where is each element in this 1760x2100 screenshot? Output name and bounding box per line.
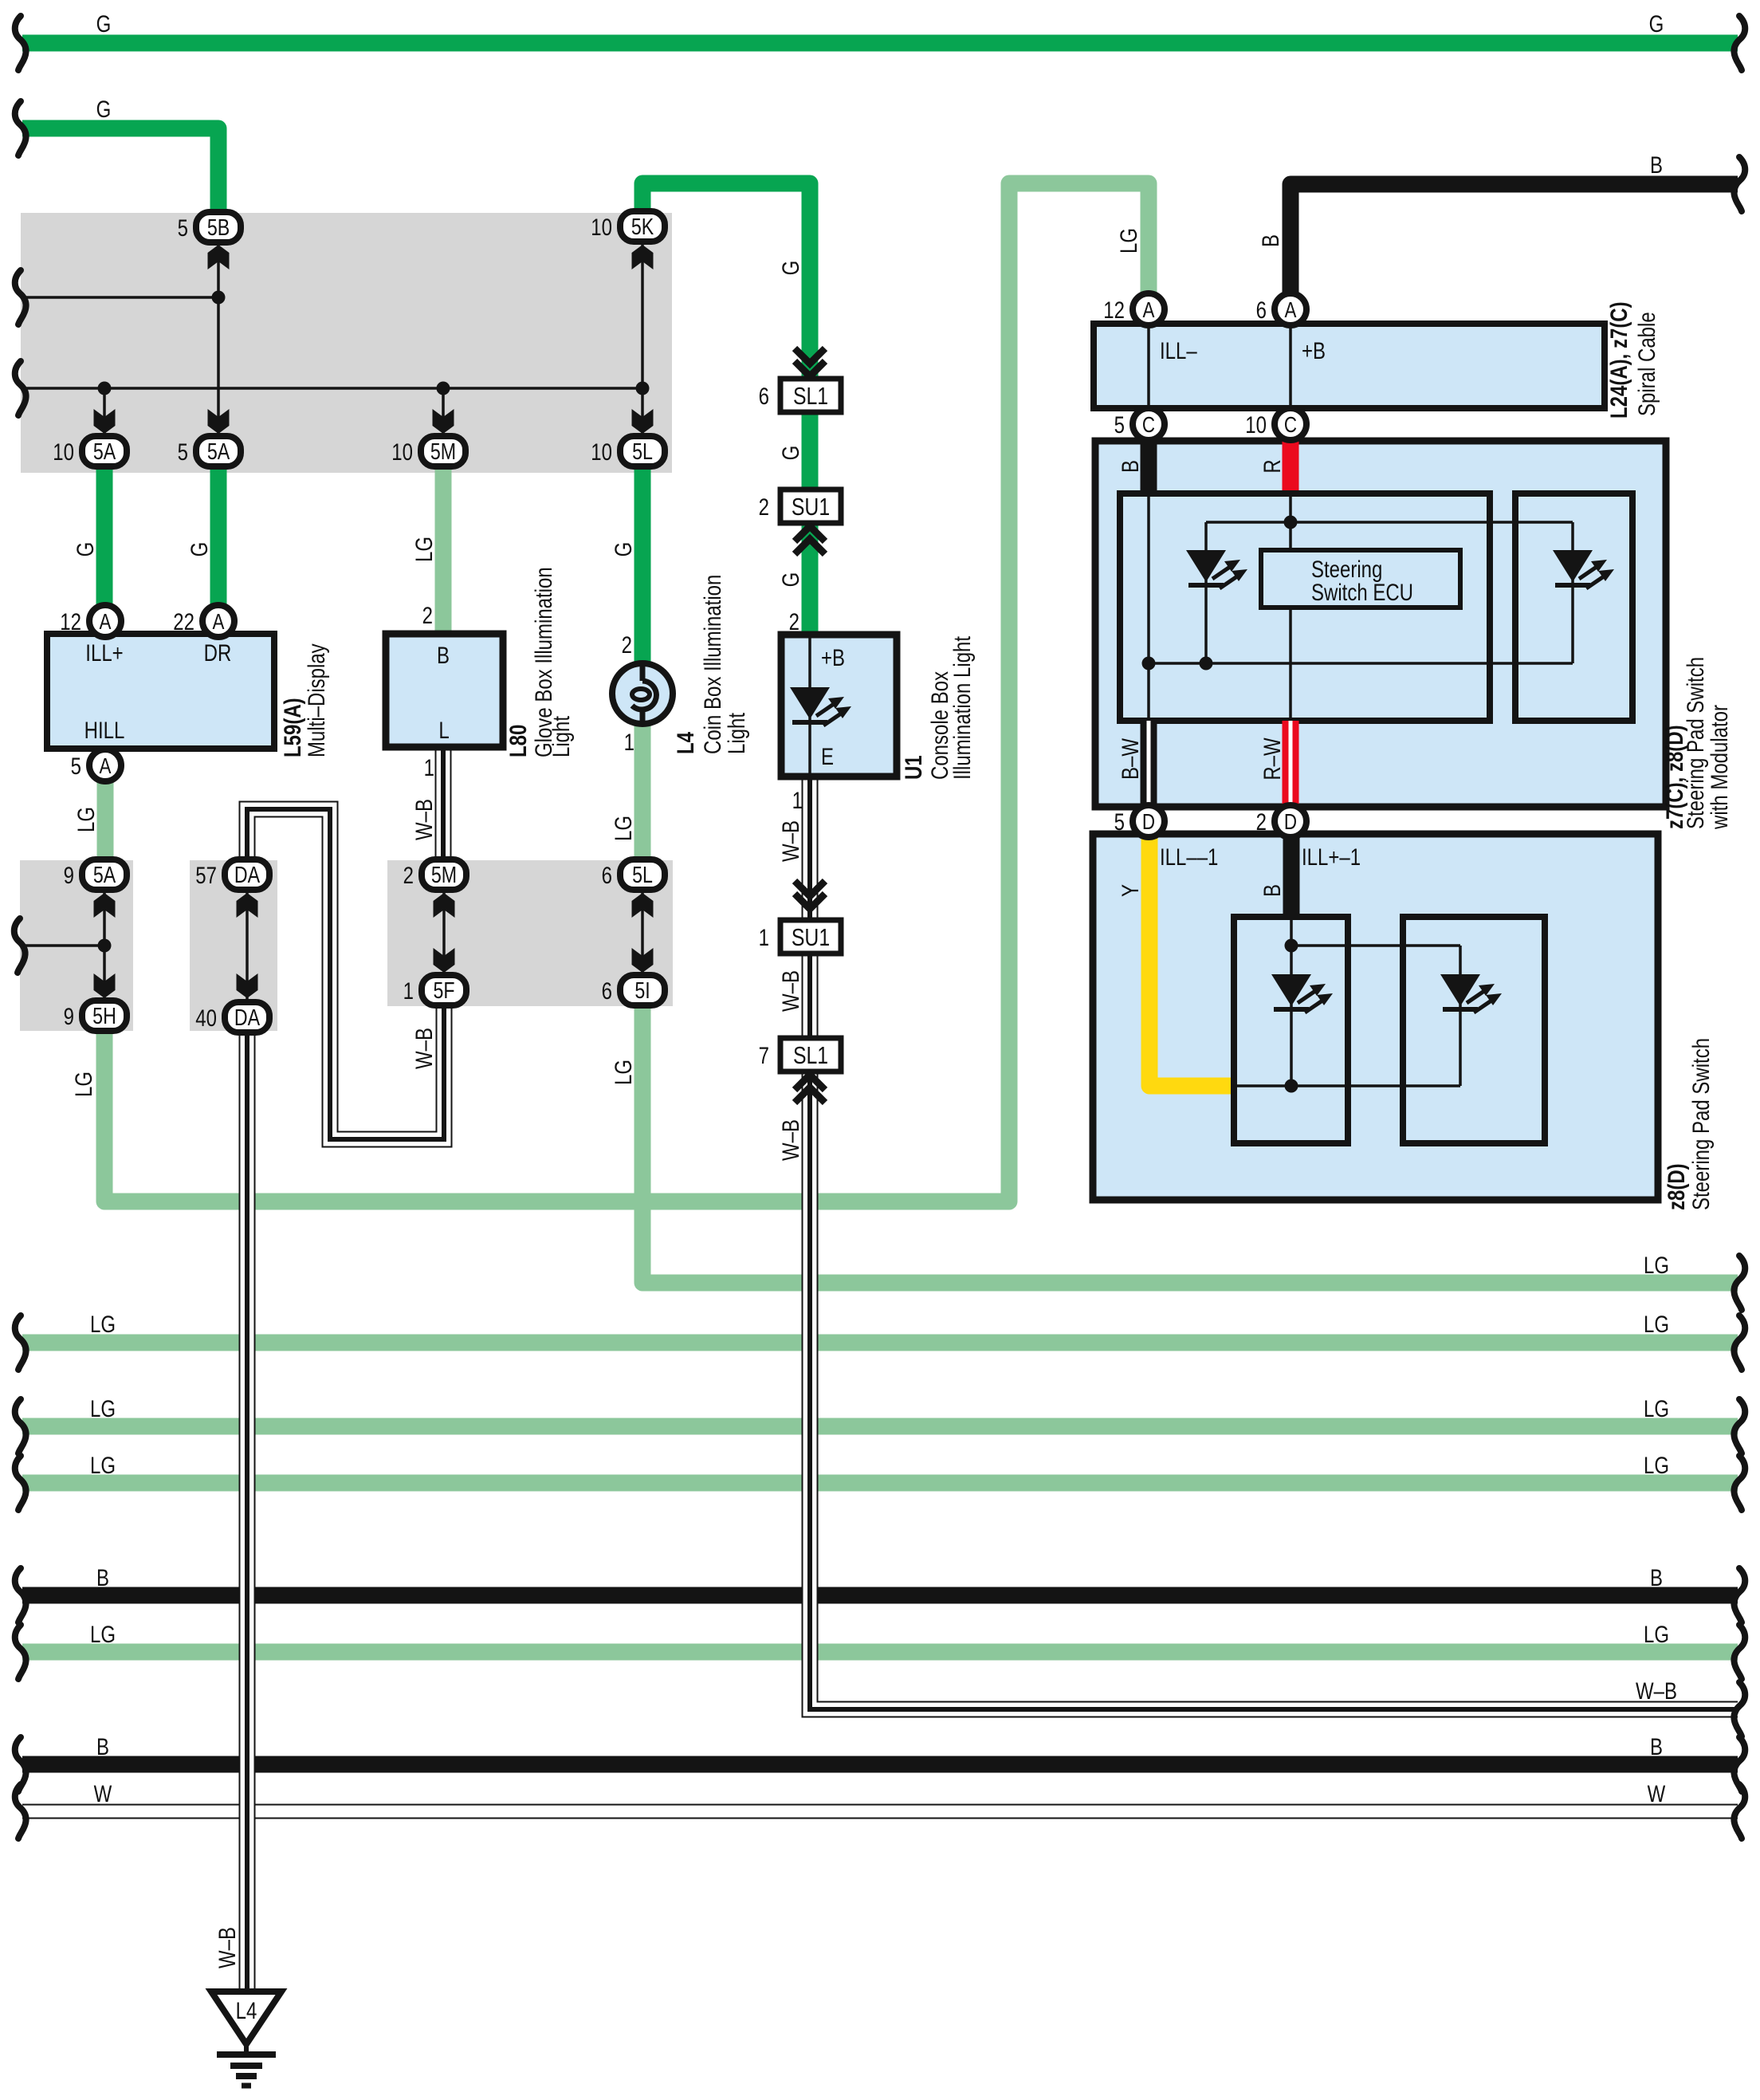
wire z8 top rail [1291, 944, 1460, 947]
svg-text:DR: DR [204, 639, 232, 666]
break LG bus2 right [1734, 1315, 1745, 1370]
svg-text:G: G [776, 572, 803, 588]
inner switch box right (z8) [1403, 917, 1545, 1143]
node 5A/5H junction [98, 939, 112, 953]
svg-text:HILL: HILL [84, 716, 125, 743]
arrow into DA57 [237, 893, 258, 918]
steering switch ECU box [1261, 550, 1460, 608]
svg-text:5: 5 [178, 438, 188, 465]
svg-text:5M: 5M [430, 438, 456, 464]
svg-text:A: A [100, 754, 112, 779]
svg-text:with Modulator: with Modulator [1705, 705, 1732, 830]
break B bus1 right [1734, 1568, 1745, 1622]
wire LG bus 2 [22, 1335, 1738, 1351]
svg-text:5A: 5A [93, 438, 116, 464]
svg-text:A: A [100, 610, 112, 635]
svg-text:+B: +B [1302, 336, 1326, 364]
svg-text:5A: 5A [207, 438, 230, 464]
svg-text:G: G [96, 10, 112, 37]
svg-text:2: 2 [1256, 808, 1267, 835]
node lower rail 5L [636, 382, 650, 395]
wire 5M/5F column [442, 891, 446, 974]
wire G 5A to multi-display pin 12 [96, 469, 113, 604]
arrow into 5L [632, 409, 654, 434]
svg-text:10: 10 [53, 438, 74, 465]
svg-text:R: R [1258, 459, 1285, 473]
svg-text:B: B [1650, 151, 1663, 178]
svg-text:6: 6 [602, 861, 612, 888]
junction block 5 (grey box) [21, 213, 672, 473]
wire z7 bottom rail [1149, 662, 1573, 665]
svg-text:SL1: SL1 [793, 1041, 828, 1068]
break B spiral right [1734, 157, 1745, 211]
wire 5B branch rail [24, 296, 218, 299]
svg-text:Light: Light [547, 716, 574, 757]
break rail2 left [15, 361, 26, 415]
svg-text:1: 1 [792, 786, 803, 813]
coin box illumination light L4 bulb [612, 663, 673, 724]
svg-text:1: 1 [424, 753, 434, 781]
wire z8 led3 branch [1290, 917, 1293, 1086]
svg-text:40: 40 [195, 1004, 217, 1031]
wire W-B 5F to DA 57 [247, 809, 444, 1139]
node z7 bottom rail junction led1 [1200, 657, 1213, 671]
connector 5B [196, 212, 241, 242]
svg-text:W–B: W–B [776, 1119, 803, 1161]
splice chevron above SL1(6) [795, 348, 825, 376]
svg-text:6: 6 [759, 382, 769, 409]
wire B bus 2 [22, 1756, 1738, 1773]
node lower rail 5M [437, 382, 450, 395]
junction block grey box 5A/5H [20, 860, 133, 1031]
splice chevron above SU1(1) [795, 881, 825, 909]
svg-text:5M: 5M [431, 861, 457, 887]
arrow into 5A(5) [208, 409, 230, 434]
LED z8 right [1440, 974, 1502, 1013]
break G bus right [1734, 16, 1745, 70]
multi-display L59(A) box [47, 634, 274, 749]
svg-text:5I: 5I [634, 977, 650, 1003]
break G feed left [15, 101, 26, 155]
svg-text:5K: 5K [631, 213, 654, 239]
connector 5A pin5 [196, 436, 241, 466]
break LG bus1 right [1734, 1256, 1745, 1310]
svg-text:W–B: W–B [776, 970, 803, 1012]
svg-text:B: B [1650, 1563, 1663, 1591]
svg-text:A: A [1143, 298, 1155, 323]
wire R-W z7 to D2 [1283, 721, 1299, 807]
connector A pin22 multi-display [202, 605, 234, 637]
svg-text:LG: LG [1644, 1310, 1669, 1337]
wire W-B U1 to splices to right bus [810, 777, 1738, 1709]
break LG bus2 left [15, 1315, 26, 1370]
splice chevron below SL1(7) [795, 1075, 825, 1103]
connector 5M pin10 [421, 436, 466, 466]
node lower rail 5A [98, 382, 112, 395]
svg-text:C: C [1142, 413, 1155, 438]
svg-text:W–B: W–B [1636, 1677, 1677, 1704]
wire LG bus 3 [22, 1418, 1738, 1435]
wire z7 top rail [1206, 521, 1573, 524]
svg-text:G: G [609, 542, 636, 557]
svg-text:L4: L4 [671, 732, 698, 754]
wire B bus to spiral cable +B [1291, 184, 1738, 293]
LED U1 [790, 687, 851, 726]
wire 5M column [442, 388, 445, 435]
arrow into 5I [632, 948, 654, 973]
wire W-B DA 40 to ground L4 [239, 1031, 256, 1990]
svg-text:Switch ECU: Switch ECU [1311, 578, 1413, 605]
connector 5K [620, 211, 665, 242]
wire LG bus 4 [22, 1475, 1738, 1492]
svg-text:U1: U1 [899, 755, 926, 780]
wire G bus top [22, 35, 1738, 52]
break LG bus4 left [15, 1456, 26, 1510]
wire 5A/5H column [103, 891, 106, 1000]
node z7 top rail junction [1284, 516, 1298, 529]
svg-text:B: B [1256, 234, 1283, 247]
arrow into 5L(6) [632, 893, 654, 918]
glove box illumination light L80 box [386, 634, 503, 747]
svg-text:LG: LG [69, 1072, 96, 1097]
steering pad switch z8 box [1093, 834, 1658, 1200]
svg-text:ILL+: ILL+ [85, 639, 123, 666]
svg-text:10: 10 [1245, 411, 1267, 438]
wire z8 bottom rail [1234, 1084, 1460, 1087]
arrow into DA40 [237, 973, 258, 998]
svg-text:B: B [96, 1732, 109, 1760]
connector A pin12 multi-display [89, 605, 121, 637]
svg-text:LG: LG [609, 1060, 636, 1085]
svg-text:5: 5 [1114, 411, 1125, 438]
junction block grey box DA [190, 860, 277, 1031]
break W-B bus right [1734, 1682, 1745, 1736]
svg-text:B: B [1258, 884, 1285, 897]
arrow into 5F [434, 948, 455, 973]
node 5B branch junction [212, 291, 226, 305]
wire G feed to 5B [22, 128, 218, 210]
wire 5K column [641, 243, 644, 435]
connector A pin6 spiral cable [1275, 293, 1306, 325]
wire z8 led4 branch [1459, 946, 1462, 1086]
svg-text:LG: LG [72, 807, 99, 832]
splice SL1 pin7 [780, 1038, 841, 1072]
svg-text:5B: 5B [207, 214, 230, 240]
ground L4 [211, 1992, 281, 2086]
wire inside U1 [808, 638, 811, 773]
svg-text:LG: LG [410, 537, 437, 562]
svg-text:E: E [821, 742, 834, 769]
svg-text:G: G [1649, 10, 1664, 37]
svg-text:57: 57 [195, 861, 217, 888]
connector DA pin57 [225, 859, 269, 890]
svg-text:A: A [1285, 298, 1297, 323]
break 5A/5H rail left [14, 918, 26, 973]
svg-text:LG: LG [90, 1620, 116, 1647]
svg-text:G: G [776, 261, 803, 276]
svg-text:G: G [96, 95, 112, 122]
connector 5F pin1 [422, 975, 466, 1005]
wire B D2 inside z8 [1283, 836, 1300, 918]
svg-text:6: 6 [1256, 296, 1267, 323]
svg-text:6: 6 [602, 977, 612, 1004]
wire DA column [246, 893, 249, 1000]
svg-text:Multi–Display: Multi–Display [302, 643, 329, 757]
svg-text:2: 2 [422, 601, 433, 628]
connector A pin5 multi-display [89, 749, 121, 781]
wire z7 led1 branch [1204, 522, 1208, 663]
connector DA pin40 [225, 1002, 269, 1032]
svg-text:D: D [1142, 810, 1155, 835]
splice chevron below SU1(2) [795, 526, 825, 554]
wire B C5 into z7 [1141, 440, 1157, 494]
connector 5L pin6 [620, 859, 665, 890]
node z7 bottom rail junction B [1142, 657, 1156, 671]
svg-text:+B: +B [821, 643, 845, 671]
svg-text:LG: LG [1114, 228, 1141, 254]
wire LG 5M to glove box light [435, 469, 452, 634]
svg-text:B–W: B–W [1116, 738, 1143, 780]
svg-text:W–B: W–B [410, 1028, 437, 1069]
svg-text:LG: LG [1644, 1620, 1669, 1647]
break B bus2 left [15, 1737, 26, 1791]
wire G 5L to coin box light [634, 469, 651, 663]
inner switch box left (z7) [1120, 494, 1490, 721]
wire inside spiral cable ILL- [1147, 327, 1150, 405]
break W bus right [1734, 1784, 1745, 1838]
svg-text:Steering Pad Switch: Steering Pad Switch [1687, 1038, 1714, 1210]
svg-text:W–B: W–B [410, 799, 437, 840]
wire z7 left branch [1147, 494, 1150, 721]
svg-text:LG: LG [90, 1451, 116, 1478]
break LG bus4 right [1734, 1456, 1745, 1510]
connector C pin5 [1133, 408, 1165, 440]
svg-text:Y: Y [1116, 884, 1143, 897]
wire 5A/5H branch [22, 944, 104, 947]
arrow into 5M(2) [434, 893, 455, 918]
svg-text:B: B [1116, 460, 1143, 473]
svg-text:LG: LG [609, 816, 636, 841]
svg-text:5H: 5H [92, 1002, 116, 1028]
connector 5H pin9 [82, 1001, 127, 1031]
break LG bus5 right [1734, 1625, 1745, 1679]
break B bus2 right [1734, 1737, 1745, 1791]
wire B bus 1 [22, 1587, 1738, 1604]
svg-text:C: C [1284, 413, 1297, 438]
svg-text:1: 1 [403, 977, 414, 1004]
svg-text:9: 9 [64, 861, 74, 888]
LED z8 left [1271, 974, 1333, 1013]
wire LG multi-display pin5 to 5A [97, 782, 114, 859]
svg-text:LG: LG [90, 1394, 116, 1422]
wire 5L/5I column [641, 891, 644, 974]
break W bus left [15, 1784, 26, 1838]
connector C pin10 [1275, 408, 1306, 440]
svg-text:5L: 5L [632, 438, 653, 464]
svg-text:5A: 5A [93, 861, 116, 887]
svg-text:LG: LG [1644, 1394, 1669, 1422]
svg-text:10: 10 [391, 438, 413, 465]
arrow into 5B [208, 245, 230, 269]
arrow into 5A(10) [94, 409, 116, 434]
connector A pin12 spiral cable [1133, 293, 1165, 325]
steering pad switch with modulator z7 box [1095, 441, 1666, 807]
wire B-W z7 to D5 [1141, 721, 1157, 807]
wire G 5A to multi-display pin 22 [210, 469, 227, 604]
svg-text:B: B [96, 1563, 109, 1591]
wire G 5K to console light column [642, 183, 810, 381]
svg-text:R–W: R–W [1258, 737, 1285, 781]
connector 5L pin10 [620, 436, 665, 466]
svg-text:LG: LG [1644, 1251, 1669, 1278]
arrow into 5H [94, 973, 116, 998]
connector D pin5 [1133, 805, 1165, 837]
svg-text:10: 10 [591, 438, 612, 465]
svg-text:12: 12 [1103, 296, 1125, 323]
wire LG bus from 5I [642, 1006, 1738, 1283]
svg-text:L80: L80 [504, 725, 531, 757]
svg-text:A: A [213, 610, 225, 635]
svg-text:LG: LG [1644, 1451, 1669, 1478]
svg-text:5L: 5L [632, 861, 653, 887]
svg-text:G: G [71, 542, 98, 557]
wire inside spiral cable +B [1289, 327, 1292, 405]
wire z7 ecu branch [1289, 494, 1292, 721]
svg-text:ILL––1: ILL––1 [1160, 843, 1218, 870]
svg-text:G: G [776, 446, 803, 461]
connector D pin2 [1275, 805, 1306, 837]
splice SU1 pin1 [780, 920, 841, 954]
wire z7 led2 branch [1571, 522, 1574, 663]
inner switch box left (z8) [1234, 917, 1348, 1143]
svg-text:5: 5 [71, 752, 81, 779]
wire Y D5 inside z8 [1149, 836, 1234, 1086]
svg-text:SL1: SL1 [793, 382, 828, 409]
inner switch box right (z7) [1515, 494, 1632, 721]
connector 5M pin2 [422, 859, 466, 890]
wire LG coin box light to 5L(6) [634, 723, 651, 859]
arrow into 5A(9) [94, 893, 116, 918]
svg-text:1: 1 [624, 728, 634, 755]
svg-text:W: W [94, 1779, 112, 1807]
svg-text:Spiral Cable: Spiral Cable [1632, 312, 1660, 416]
svg-text:DA: DA [234, 1004, 261, 1030]
svg-text:2: 2 [622, 631, 632, 658]
break LG bus5 left [15, 1625, 26, 1679]
svg-text:2: 2 [403, 861, 414, 888]
svg-text:2: 2 [789, 608, 799, 635]
wire LG bus 5 [22, 1644, 1738, 1661]
wire LG 5H to spiral cable ILL- [104, 183, 1149, 1201]
svg-text:7: 7 [759, 1041, 769, 1068]
connector 5A pin10 [82, 436, 127, 466]
splice SU1 pin2 [780, 490, 841, 523]
svg-text:z8(D): z8(D) [1662, 1163, 1689, 1210]
svg-text:2: 2 [759, 493, 769, 520]
spiral cable L24(A) z7(C) box [1094, 324, 1605, 408]
svg-text:B: B [1650, 1732, 1663, 1760]
splice SL1 pin6 [780, 379, 841, 412]
svg-text:L24(A), z7(C): L24(A), z7(C) [1605, 301, 1632, 419]
connector 5A pin9 [82, 859, 127, 890]
node z8 bottom junction [1285, 1079, 1298, 1093]
svg-text:LG: LG [90, 1310, 116, 1337]
svg-text:SU1: SU1 [792, 923, 830, 950]
node z8 top junction [1285, 939, 1298, 953]
svg-text:W–B: W–B [213, 1927, 240, 1968]
svg-text:DA: DA [234, 861, 261, 887]
wire W bus [22, 1804, 1738, 1819]
svg-text:Light: Light [722, 713, 749, 754]
wire 5A column [103, 388, 106, 435]
svg-text:ILL–: ILL– [1160, 336, 1197, 364]
svg-text:5: 5 [178, 214, 188, 241]
svg-text:ILL+–1: ILL+–1 [1302, 843, 1361, 870]
break B bus1 left [15, 1568, 26, 1622]
svg-text:5: 5 [1114, 808, 1125, 835]
svg-text:L4: L4 [236, 1996, 257, 2023]
wire lower rail [24, 387, 642, 390]
LED z7 right [1553, 550, 1614, 588]
svg-text:SU1: SU1 [792, 493, 830, 520]
svg-text:B: B [437, 641, 450, 668]
break LG bus3 right [1734, 1399, 1745, 1453]
LED z7 left [1186, 550, 1247, 588]
svg-text:Illumination Light: Illumination Light [948, 636, 975, 780]
svg-text:D: D [1284, 810, 1297, 835]
svg-text:L: L [438, 716, 449, 743]
wire 5B column [217, 243, 220, 435]
svg-text:W: W [1648, 1779, 1666, 1807]
svg-text:1: 1 [759, 923, 769, 950]
svg-text:22: 22 [173, 608, 194, 635]
svg-text:9: 9 [64, 1002, 74, 1029]
break G bus left [15, 16, 26, 70]
svg-text:5F: 5F [433, 977, 454, 1003]
connector 5I pin6 [620, 975, 665, 1005]
arrow into 5K [632, 245, 654, 269]
break LG bus3 left [15, 1399, 26, 1453]
svg-text:12: 12 [60, 608, 81, 635]
wire R C10 into z7 [1283, 440, 1299, 494]
break rail1 left [15, 270, 26, 324]
svg-text:10: 10 [591, 213, 612, 240]
svg-text:G: G [185, 542, 212, 557]
wire G SL1 to U1 [802, 381, 819, 635]
arrow into 5M [433, 409, 454, 434]
svg-text:W–B: W–B [776, 820, 803, 862]
console box illumination light U1 box [781, 635, 897, 777]
wire W-B glove box L to 5M [435, 747, 452, 859]
junction block grey box 5M/5F/5L/5I [387, 860, 673, 1006]
